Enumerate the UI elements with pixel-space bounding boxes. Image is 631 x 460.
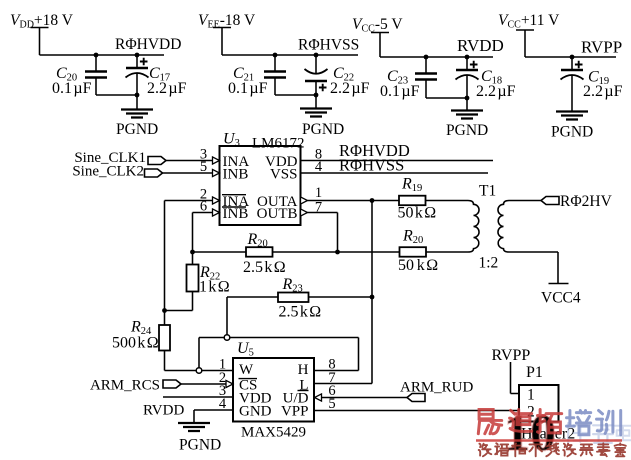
svg-text:500 k Ω: 500 k Ω <box>112 335 159 352</box>
svg-text:7: 7 <box>315 200 322 216</box>
svg-text:OUTB: OUTB <box>257 206 298 222</box>
svg-text:50 k Ω: 50 k Ω <box>398 205 437 222</box>
svg-text:VEE-18 V: VEE-18 V <box>198 12 256 31</box>
svg-text:VCC+11 V: VCC+11 V <box>498 12 560 31</box>
svg-text:W: W <box>239 362 254 378</box>
svg-text:2.2 µF: 2.2 µF <box>330 80 370 97</box>
svg-text:P1: P1 <box>526 364 543 381</box>
svg-text:1 k Ω: 1 k Ω <box>199 279 230 296</box>
svg-text:RΦHVSS: RΦHVSS <box>339 156 404 175</box>
svg-text:4: 4 <box>219 396 227 412</box>
svg-text:RVDD: RVDD <box>457 36 504 55</box>
svg-text:VCC4: VCC4 <box>541 290 581 307</box>
svg-text:Sine_CLK2: Sine_CLK2 <box>72 164 144 180</box>
svg-text:INB: INB <box>223 206 249 222</box>
svg-text:PGND: PGND <box>302 121 344 138</box>
svg-text:5: 5 <box>200 159 207 175</box>
svg-text:GND: GND <box>239 404 272 420</box>
svg-text:50 k Ω: 50 k Ω <box>398 257 438 274</box>
svg-text:H: H <box>298 362 309 378</box>
svg-text:RΦHVDD: RΦHVDD <box>115 36 181 53</box>
svg-text:RΦHVSS: RΦHVSS <box>298 37 359 54</box>
svg-text:RΦ2HV: RΦ2HV <box>560 193 613 210</box>
svg-text:T1: T1 <box>479 183 496 200</box>
svg-text:5: 5 <box>328 396 335 412</box>
svg-text:VPP: VPP <box>281 404 309 420</box>
svg-text:RVDD: RVDD <box>143 403 184 419</box>
svg-text:0.1 µF: 0.1 µF <box>228 80 268 97</box>
svg-text:ARM_RCS: ARM_RCS <box>90 378 160 394</box>
svg-text:VSS: VSS <box>270 167 298 183</box>
svg-text:RVPP: RVPP <box>492 347 531 364</box>
svg-text:MAX5429: MAX5429 <box>241 425 306 441</box>
svg-text:1:2: 1:2 <box>479 255 499 272</box>
svg-text:PGND: PGND <box>116 121 158 138</box>
svg-text:4: 4 <box>315 159 323 175</box>
svg-text:2.2 µF: 2.2 µF <box>147 80 187 97</box>
svg-text:PGND: PGND <box>551 124 593 141</box>
svg-text:1: 1 <box>527 387 535 404</box>
svg-text:INB: INB <box>223 167 249 183</box>
svg-text:ARM_RUD: ARM_RUD <box>400 380 474 396</box>
svg-text:0.1 µF: 0.1 µF <box>380 83 420 100</box>
svg-text:VCC-5 V: VCC-5 V <box>352 16 403 35</box>
svg-text:2.5 k Ω: 2.5 k Ω <box>243 259 286 276</box>
svg-text:2.2 µF: 2.2 µF <box>583 83 623 100</box>
svg-text:2.2 µF: 2.2 µF <box>476 83 516 100</box>
svg-text:0.1 µF: 0.1 µF <box>52 80 92 97</box>
svg-text:RVPP: RVPP <box>581 38 622 57</box>
svg-text:PGND: PGND <box>446 122 488 139</box>
svg-text:LM6172: LM6172 <box>252 136 305 152</box>
svg-text:PGND: PGND <box>179 437 221 454</box>
svg-text:6: 6 <box>200 199 207 215</box>
svg-text:2.5 k Ω: 2.5 k Ω <box>279 304 322 321</box>
